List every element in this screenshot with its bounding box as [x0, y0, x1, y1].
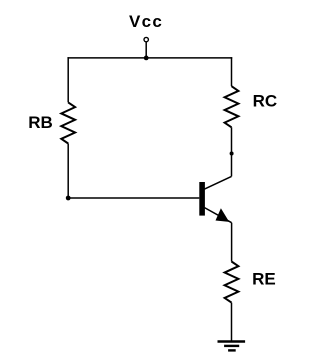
- transistor Q1: [199, 176, 231, 222]
- Vcc terminal: [144, 37, 148, 58]
- label RE: [252, 269, 276, 288]
- wire left branch lower: [67, 144, 69, 199]
- wire ground lead: [231, 303, 233, 342]
- resistor RC: [225, 86, 239, 127]
- svg-text:RE: RE: [252, 269, 276, 288]
- junction base node: [66, 196, 71, 201]
- wire emitter vertical: [231, 223, 233, 262]
- node collector dot: [230, 152, 234, 156]
- junction Vcc node: [144, 56, 149, 61]
- wire top rail: [67, 57, 232, 59]
- wire collector vertical: [231, 127, 233, 176]
- wire right branch upper: [231, 57, 233, 86]
- ground: [218, 342, 246, 351]
- label Vcc: [129, 12, 163, 31]
- wire base: [68, 197, 199, 199]
- resistor RB: [61, 102, 75, 143]
- label RC: [253, 91, 278, 110]
- svg-text:RC: RC: [253, 91, 278, 110]
- resistor RE: [225, 262, 239, 303]
- svg-text:Vcc: Vcc: [129, 12, 163, 31]
- svg-text:RB: RB: [28, 113, 53, 132]
- label RB: [28, 113, 53, 132]
- wire left branch upper: [67, 57, 69, 102]
